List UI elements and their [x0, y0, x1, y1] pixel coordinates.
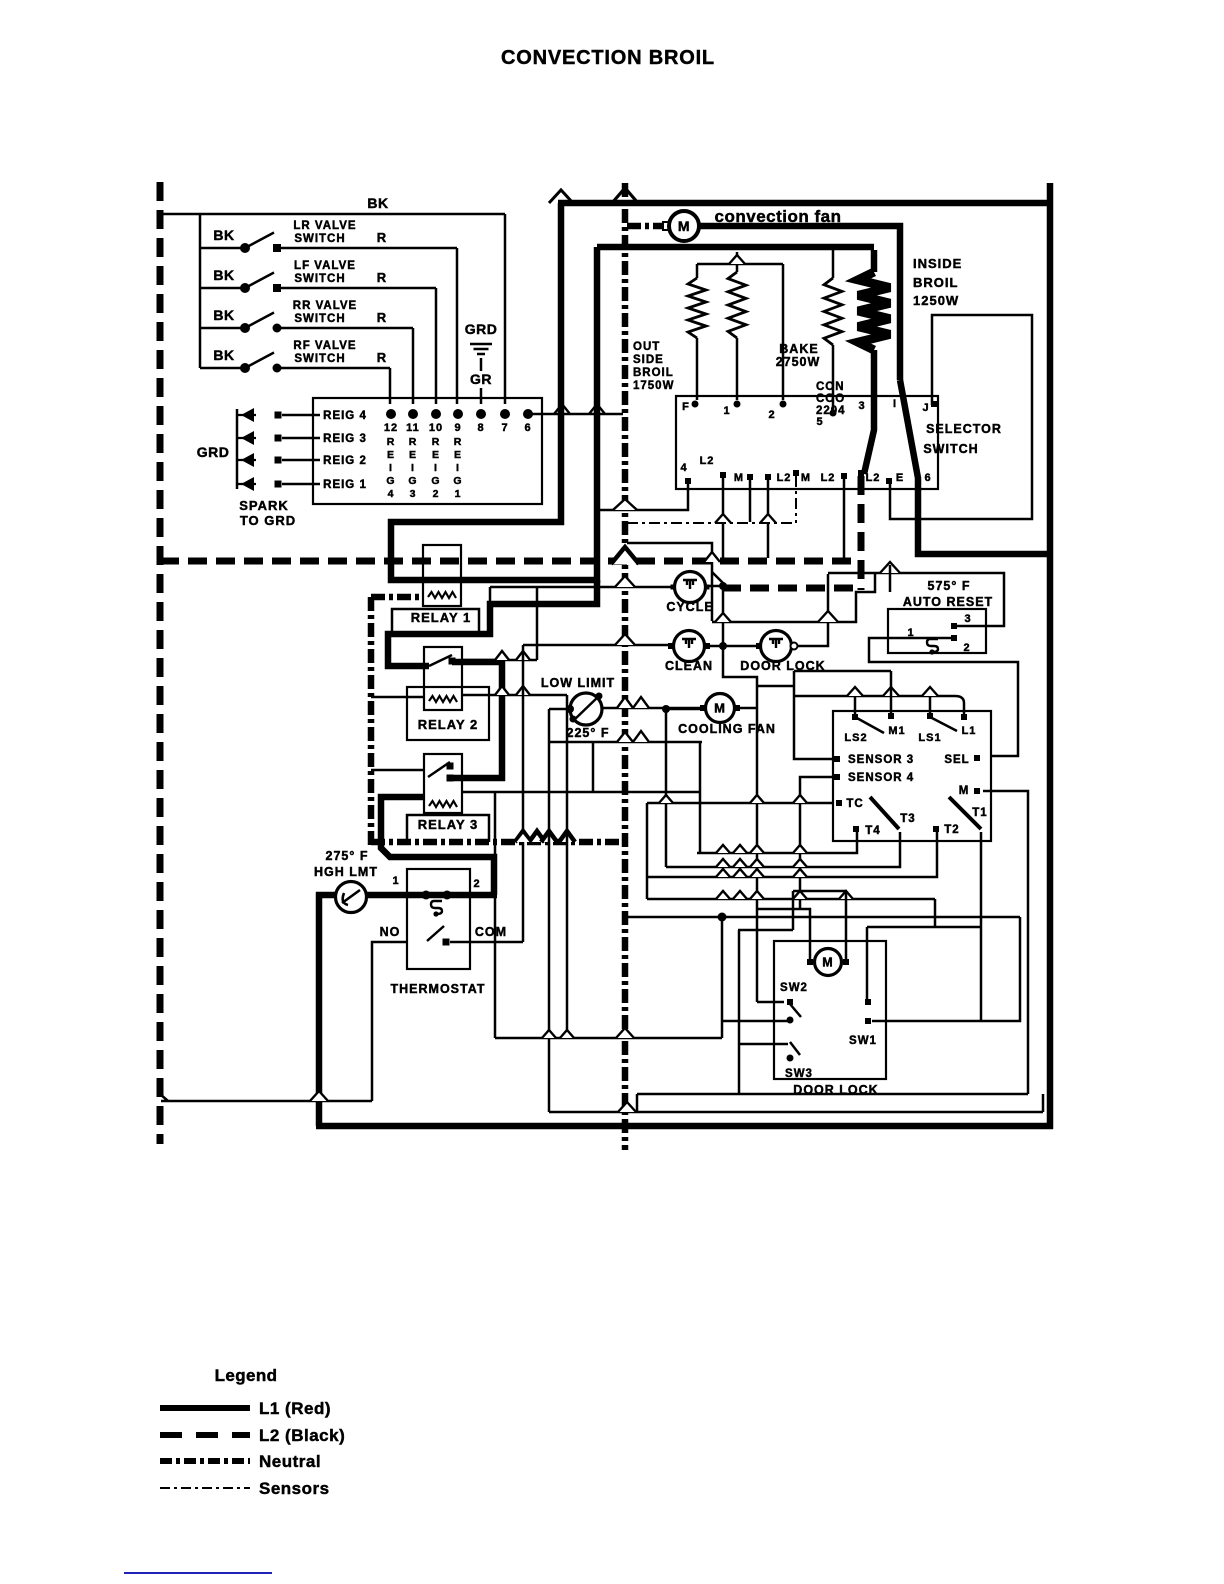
- wire y917: [627, 916, 1020, 919]
- svg-text:1750W: 1750W: [633, 380, 674, 392]
- wire NO: [372, 942, 407, 1101]
- svg-text:SW2: SW2: [780, 982, 808, 994]
- box door lock: [774, 941, 886, 1079]
- wire pin3 loop: [828, 573, 1004, 626]
- svg-text:M: M: [714, 701, 726, 716]
- wire L1 bus y247: [597, 244, 874, 251]
- pin L2a: [720, 472, 726, 478]
- svg-text:THERMOSTAT: THERMOSTAT: [391, 982, 486, 996]
- pin L1: [961, 714, 967, 720]
- pin 2: [780, 401, 787, 408]
- svg-text:TO GRD: TO GRD: [240, 513, 296, 528]
- wire lowlimit right to cooling fan: [602, 707, 705, 710]
- svg-text:SENSOR 4: SENSOR 4: [848, 772, 914, 784]
- resistor OUT SIDE BROIL: [688, 278, 706, 338]
- switch RR VALVE: [200, 327, 245, 330]
- svg-text:R: R: [454, 436, 463, 448]
- svg-text:575° F: 575° F: [928, 579, 971, 593]
- svg-text:HGH LMT: HGH LMT: [314, 865, 378, 879]
- svg-text:GRD: GRD: [465, 321, 498, 337]
- motor convection fan M: [663, 222, 671, 230]
- svg-text:G: G: [431, 475, 440, 487]
- wire y660: [462, 659, 537, 662]
- box relay 1: [423, 545, 461, 606]
- pin LS2: [852, 714, 858, 720]
- svg-text:L1: L1: [962, 725, 977, 737]
- motor door lock M: [815, 949, 842, 976]
- wire L2 pin-b: [767, 479, 770, 558]
- wire cycle left: [490, 586, 674, 589]
- svg-text:L1 (Red): L1 (Red): [259, 1399, 331, 1418]
- pin 1: [734, 401, 741, 408]
- indicator DOOR LOCK: [761, 631, 792, 662]
- svg-text:REIG 3: REIG 3: [323, 433, 367, 445]
- svg-text:1: 1: [723, 405, 730, 417]
- svg-text:G: G: [453, 475, 462, 487]
- svg-text:F: F: [682, 401, 690, 413]
- thermo switch HGH LMT: [336, 882, 367, 913]
- svg-text:T1: T1: [972, 807, 987, 819]
- svg-text:BK: BK: [367, 195, 388, 211]
- svg-text:CYCLE: CYCLE: [666, 600, 713, 614]
- wire M pin right: [983, 791, 1028, 1094]
- wire sw1 row: [647, 898, 935, 901]
- wire T4: [697, 832, 857, 853]
- svg-text:6: 6: [524, 422, 531, 434]
- REIG pins row: [386, 409, 396, 419]
- sensors enclosure dash-dot: [368, 597, 375, 845]
- svg-text:BROIL: BROIL: [633, 367, 674, 379]
- svg-text:3: 3: [410, 488, 417, 500]
- wire doorlock M right: [845, 891, 848, 962]
- motor COOLING FAN: [706, 694, 735, 723]
- wire L1 from fan: [700, 226, 900, 380]
- svg-text:L2 (Black): L2 (Black): [259, 1426, 345, 1445]
- svg-text:SWITCH: SWITCH: [294, 353, 345, 365]
- box relay 3: [424, 754, 462, 813]
- svg-text:E: E: [387, 449, 395, 461]
- svg-text:BK: BK: [213, 307, 234, 323]
- wire riser x700: [699, 742, 702, 853]
- svg-text:1: 1: [455, 488, 462, 500]
- svg-text:COOLING FAN: COOLING FAN: [678, 722, 776, 736]
- wire y927: [867, 926, 981, 929]
- svg-text:G: G: [386, 475, 395, 487]
- pin J: [931, 401, 937, 407]
- wire x890: [889, 565, 892, 592]
- svg-text:3: 3: [964, 613, 971, 625]
- svg-text:BK: BK: [213, 267, 234, 283]
- svg-text:R: R: [409, 436, 418, 448]
- svg-text:R: R: [387, 436, 396, 448]
- pin T2: [933, 826, 939, 832]
- svg-text:RR VALVE: RR VALVE: [293, 300, 357, 312]
- svg-text:11: 11: [406, 422, 420, 434]
- wire clean left: [523, 644, 673, 647]
- svg-text:RELAY 3: RELAY 3: [418, 817, 478, 832]
- svg-text:I: I: [434, 462, 438, 474]
- svg-text:M1: M1: [888, 725, 905, 737]
- wire L2 pin-c: [843, 478, 846, 558]
- svg-text:RF VALVE: RF VALVE: [293, 340, 356, 352]
- svg-text:Sensors: Sensors: [259, 1479, 330, 1498]
- svg-text:BK: BK: [213, 347, 234, 363]
- wire TC: [647, 802, 833, 805]
- wire M pin to neutral-dash: [749, 479, 752, 522]
- wire y671: [794, 670, 891, 673]
- svg-text:Legend: Legend: [215, 1366, 278, 1385]
- svg-text:12: 12: [384, 422, 398, 434]
- svg-text:SW3: SW3: [785, 1068, 813, 1080]
- switch T3: [870, 797, 899, 829]
- wire M1 riser: [890, 671, 893, 713]
- svg-text:INSIDE: INSIDE: [913, 256, 962, 271]
- svg-text:CONVECTION BROIL: CONVECTION BROIL: [501, 47, 715, 69]
- pin TC: [836, 800, 842, 806]
- indicator CLEAN: [674, 631, 705, 662]
- svg-text:R: R: [377, 350, 387, 365]
- svg-text:BAKE: BAKE: [779, 342, 818, 356]
- svg-text:SEL: SEL: [944, 754, 969, 766]
- spark electrode REIG 4: [237, 414, 256, 416]
- thermostat blade NO/COM: [427, 926, 444, 941]
- wire neutral vertical: [622, 183, 629, 1150]
- box REIG module: [313, 398, 542, 504]
- svg-text:SWITCH: SWITCH: [923, 442, 978, 456]
- svg-text:2: 2: [768, 409, 775, 421]
- box auto reset: [888, 609, 986, 653]
- pin SENSOR 4: [834, 774, 840, 780]
- wire cooling fan right: [736, 707, 757, 710]
- wire T3 down: [666, 832, 900, 867]
- wire resistor top bus: [697, 263, 783, 266]
- wire sensor4: [800, 777, 833, 909]
- pin 5: [830, 410, 837, 417]
- svg-text:M: M: [678, 218, 690, 234]
- wire clean right junction: [705, 645, 760, 648]
- wire pin6 to neutral: [528, 413, 623, 416]
- svg-text:L2: L2: [821, 472, 836, 484]
- wire T2 down: [647, 832, 937, 877]
- svg-text:2: 2: [473, 878, 480, 890]
- svg-text:E: E: [409, 449, 417, 461]
- svg-text:2: 2: [433, 488, 440, 500]
- svg-text:NO: NO: [380, 925, 401, 939]
- svg-text:9: 9: [454, 422, 461, 434]
- svg-text:LF VALVE: LF VALVE: [294, 260, 356, 272]
- svg-text:M: M: [801, 472, 811, 484]
- svg-text:SIDE: SIDE: [633, 354, 664, 366]
- pin Mn: [793, 470, 799, 476]
- wire SW1 bottom: [872, 917, 1020, 1021]
- switch LF VALVE: [200, 287, 245, 290]
- wire y792: [462, 791, 700, 794]
- wire SW1 top: [866, 927, 869, 1002]
- svg-text:M: M: [822, 956, 833, 970]
- svg-text:OUT: OUT: [633, 341, 660, 353]
- svg-text:T2: T2: [944, 824, 959, 836]
- wire cycle right junction: [706, 585, 723, 588]
- wire y1038: [495, 1037, 722, 1040]
- wire L1 vertical x562: [391, 203, 597, 580]
- svg-text:COM: COM: [475, 925, 507, 939]
- svg-text:T4: T4: [865, 825, 880, 837]
- svg-text:GR: GR: [470, 371, 492, 387]
- svg-text:SWITCH: SWITCH: [294, 313, 345, 325]
- wire y695: [462, 694, 567, 697]
- resistor BAKE: [728, 272, 746, 338]
- pin E: [886, 478, 892, 484]
- wire J loop: [890, 315, 1032, 519]
- svg-text:LS1: LS1: [918, 732, 941, 744]
- wire x723 chain: [712, 572, 757, 1002]
- svg-text:SPARK: SPARK: [239, 498, 289, 513]
- wire doorlock M left: [757, 909, 810, 1002]
- wire L1 relay path: [388, 580, 597, 666]
- wire bottom y1112: [549, 1111, 1043, 1114]
- wire L2 selector heavy dashed: [858, 476, 865, 590]
- wire neutral stub to convection fan: [627, 223, 666, 230]
- svg-text:5: 5: [816, 416, 823, 428]
- svg-text:Neutral: Neutral: [259, 1452, 321, 1471]
- pin SENSOR 3: [834, 756, 840, 762]
- svg-text:R: R: [377, 230, 387, 245]
- svg-text:LS2: LS2: [844, 732, 867, 744]
- svg-text:6: 6: [924, 472, 931, 484]
- wire m-right row: [793, 890, 846, 893]
- svg-text:8: 8: [477, 422, 484, 434]
- wire T1 down: [980, 832, 983, 1021]
- svg-text:COO: COO: [816, 393, 845, 405]
- svg-text:RELAY 1: RELAY 1: [411, 610, 471, 625]
- svg-text:I: I: [411, 462, 415, 474]
- wire SW3: [739, 1043, 788, 1046]
- pin L2b: [765, 474, 771, 480]
- box selector switch: [676, 396, 938, 489]
- svg-text:L2: L2: [866, 472, 881, 484]
- box thermostat: [407, 869, 470, 969]
- wire pin7 to BK: [504, 214, 507, 404]
- wire SW2 lower: [722, 917, 788, 1038]
- svg-text:LOW LIMIT: LOW LIMIT: [541, 676, 615, 690]
- svg-text:I: I: [893, 398, 897, 410]
- svg-text:7: 7: [501, 422, 508, 434]
- wire L2 pin-a: [722, 478, 725, 558]
- spark electrode bus: [236, 409, 239, 489]
- svg-text:M: M: [734, 472, 744, 484]
- wire L1 pin s-curve: [955, 696, 964, 714]
- svg-text:REIG 4: REIG 4: [323, 410, 367, 422]
- wire x712: [627, 543, 712, 621]
- svg-text:CLEAN: CLEAN: [665, 659, 713, 673]
- svg-text:BK: BK: [213, 227, 234, 243]
- wire L1 top: [558, 200, 1053, 207]
- svg-text:SWITCH: SWITCH: [294, 273, 345, 285]
- svg-text:E: E: [432, 449, 440, 461]
- pin LS1: [927, 713, 933, 719]
- svg-text:SW1: SW1: [849, 1035, 877, 1047]
- svg-text:10: 10: [429, 422, 443, 434]
- box sensor module: [833, 711, 991, 841]
- pin T4: [853, 826, 859, 832]
- spark electrode REIG 3: [237, 437, 256, 439]
- wire bottom y1101: [161, 1100, 372, 1103]
- indicator CYCLE: [675, 572, 706, 603]
- wire sensor top bus: [793, 695, 955, 698]
- switch SW2: [790, 1004, 801, 1017]
- wire L2 main dashed horizontal: [160, 558, 855, 565]
- svg-text:J: J: [922, 402, 929, 414]
- wire TC riser: [646, 803, 649, 899]
- wire COM: [450, 941, 523, 944]
- pin M1: [888, 713, 894, 719]
- switch LR VALVE: [200, 247, 245, 250]
- svg-text:R: R: [377, 310, 387, 325]
- thermo switch LOW LIMIT: [570, 693, 602, 725]
- svg-text:3: 3: [858, 400, 865, 412]
- svg-text:BROIL: BROIL: [913, 275, 958, 290]
- svg-text:L2: L2: [700, 455, 715, 467]
- switch RF VALVE: [200, 367, 245, 370]
- wire x523 COM riser: [522, 645, 525, 942]
- resistor INSIDE BROIL (bold): [858, 272, 890, 350]
- svg-text:REIG 1: REIG 1: [323, 479, 367, 491]
- spark electrode REIG 1: [237, 483, 256, 485]
- svg-text:1: 1: [392, 875, 399, 887]
- wire L1 bottom: [316, 1123, 1053, 1130]
- wire L2 left dashed border: [157, 182, 164, 1144]
- wire cooling fan left junction: [666, 708, 705, 711]
- svg-text:SELECTOR: SELECTOR: [926, 422, 1002, 436]
- svg-text:CON: CON: [816, 381, 845, 393]
- svg-text:RELAY 2: RELAY 2: [418, 717, 478, 732]
- svg-text:AUTO RESET: AUTO RESET: [903, 595, 993, 609]
- svg-text:M: M: [959, 785, 970, 797]
- wire doorlock right: [798, 574, 828, 646]
- relay2 switch blade: [429, 655, 452, 666]
- spark electrode REIG 2: [237, 459, 256, 461]
- svg-text:4: 4: [680, 462, 687, 474]
- svg-text:L2: L2: [777, 472, 792, 484]
- svg-text:G: G: [408, 475, 417, 487]
- relay3 switch blade: [428, 762, 450, 777]
- svg-text:2: 2: [963, 642, 970, 654]
- svg-text:225° F: 225° F: [567, 726, 610, 740]
- switch SW3: [790, 1042, 800, 1055]
- wire pin2: [869, 638, 1018, 756]
- resistor CON COO: [824, 278, 842, 345]
- svg-text:4: 4: [388, 488, 395, 500]
- svg-text:TC: TC: [846, 798, 863, 810]
- pin F: [692, 401, 699, 408]
- wire sensor3: [757, 671, 833, 759]
- switch T1: [949, 797, 981, 829]
- svg-text:T3: T3: [900, 813, 915, 825]
- wire L1 diagonal 3 to L2: [900, 380, 1053, 554]
- wire BK left bus: [199, 214, 202, 368]
- pin 4: [685, 478, 691, 484]
- wire L1 right border: [1047, 183, 1054, 1129]
- svg-text:E: E: [454, 449, 462, 461]
- footer blue rule: [124, 1572, 272, 1574]
- wire y742: [549, 741, 702, 744]
- wire bottom y1094: [637, 1093, 1028, 1096]
- svg-text:SWITCH: SWITCH: [294, 233, 345, 245]
- svg-text:LR VALVE: LR VALVE: [293, 220, 356, 232]
- wire BK top bus: [160, 213, 505, 216]
- wire sensor dash-dot under selector: [627, 522, 793, 524]
- wire pin4: [600, 483, 688, 510]
- svg-text:REIG 2: REIG 2: [323, 455, 367, 467]
- svg-text:I: I: [389, 462, 393, 474]
- svg-text:R: R: [432, 436, 441, 448]
- svg-text:GRD: GRD: [197, 444, 230, 460]
- svg-text:R: R: [377, 270, 387, 285]
- svg-text:SENSOR 3: SENSOR 3: [848, 754, 914, 766]
- svg-text:E: E: [896, 472, 904, 484]
- svg-text:1250W: 1250W: [913, 293, 959, 308]
- svg-text:I: I: [456, 462, 460, 474]
- svg-text:2750W: 2750W: [776, 355, 821, 369]
- wire lowlimit left: [549, 708, 570, 711]
- wire x549 long: [548, 709, 551, 1112]
- svg-text:275° F: 275° F: [326, 849, 369, 863]
- box relay 2: [424, 647, 462, 710]
